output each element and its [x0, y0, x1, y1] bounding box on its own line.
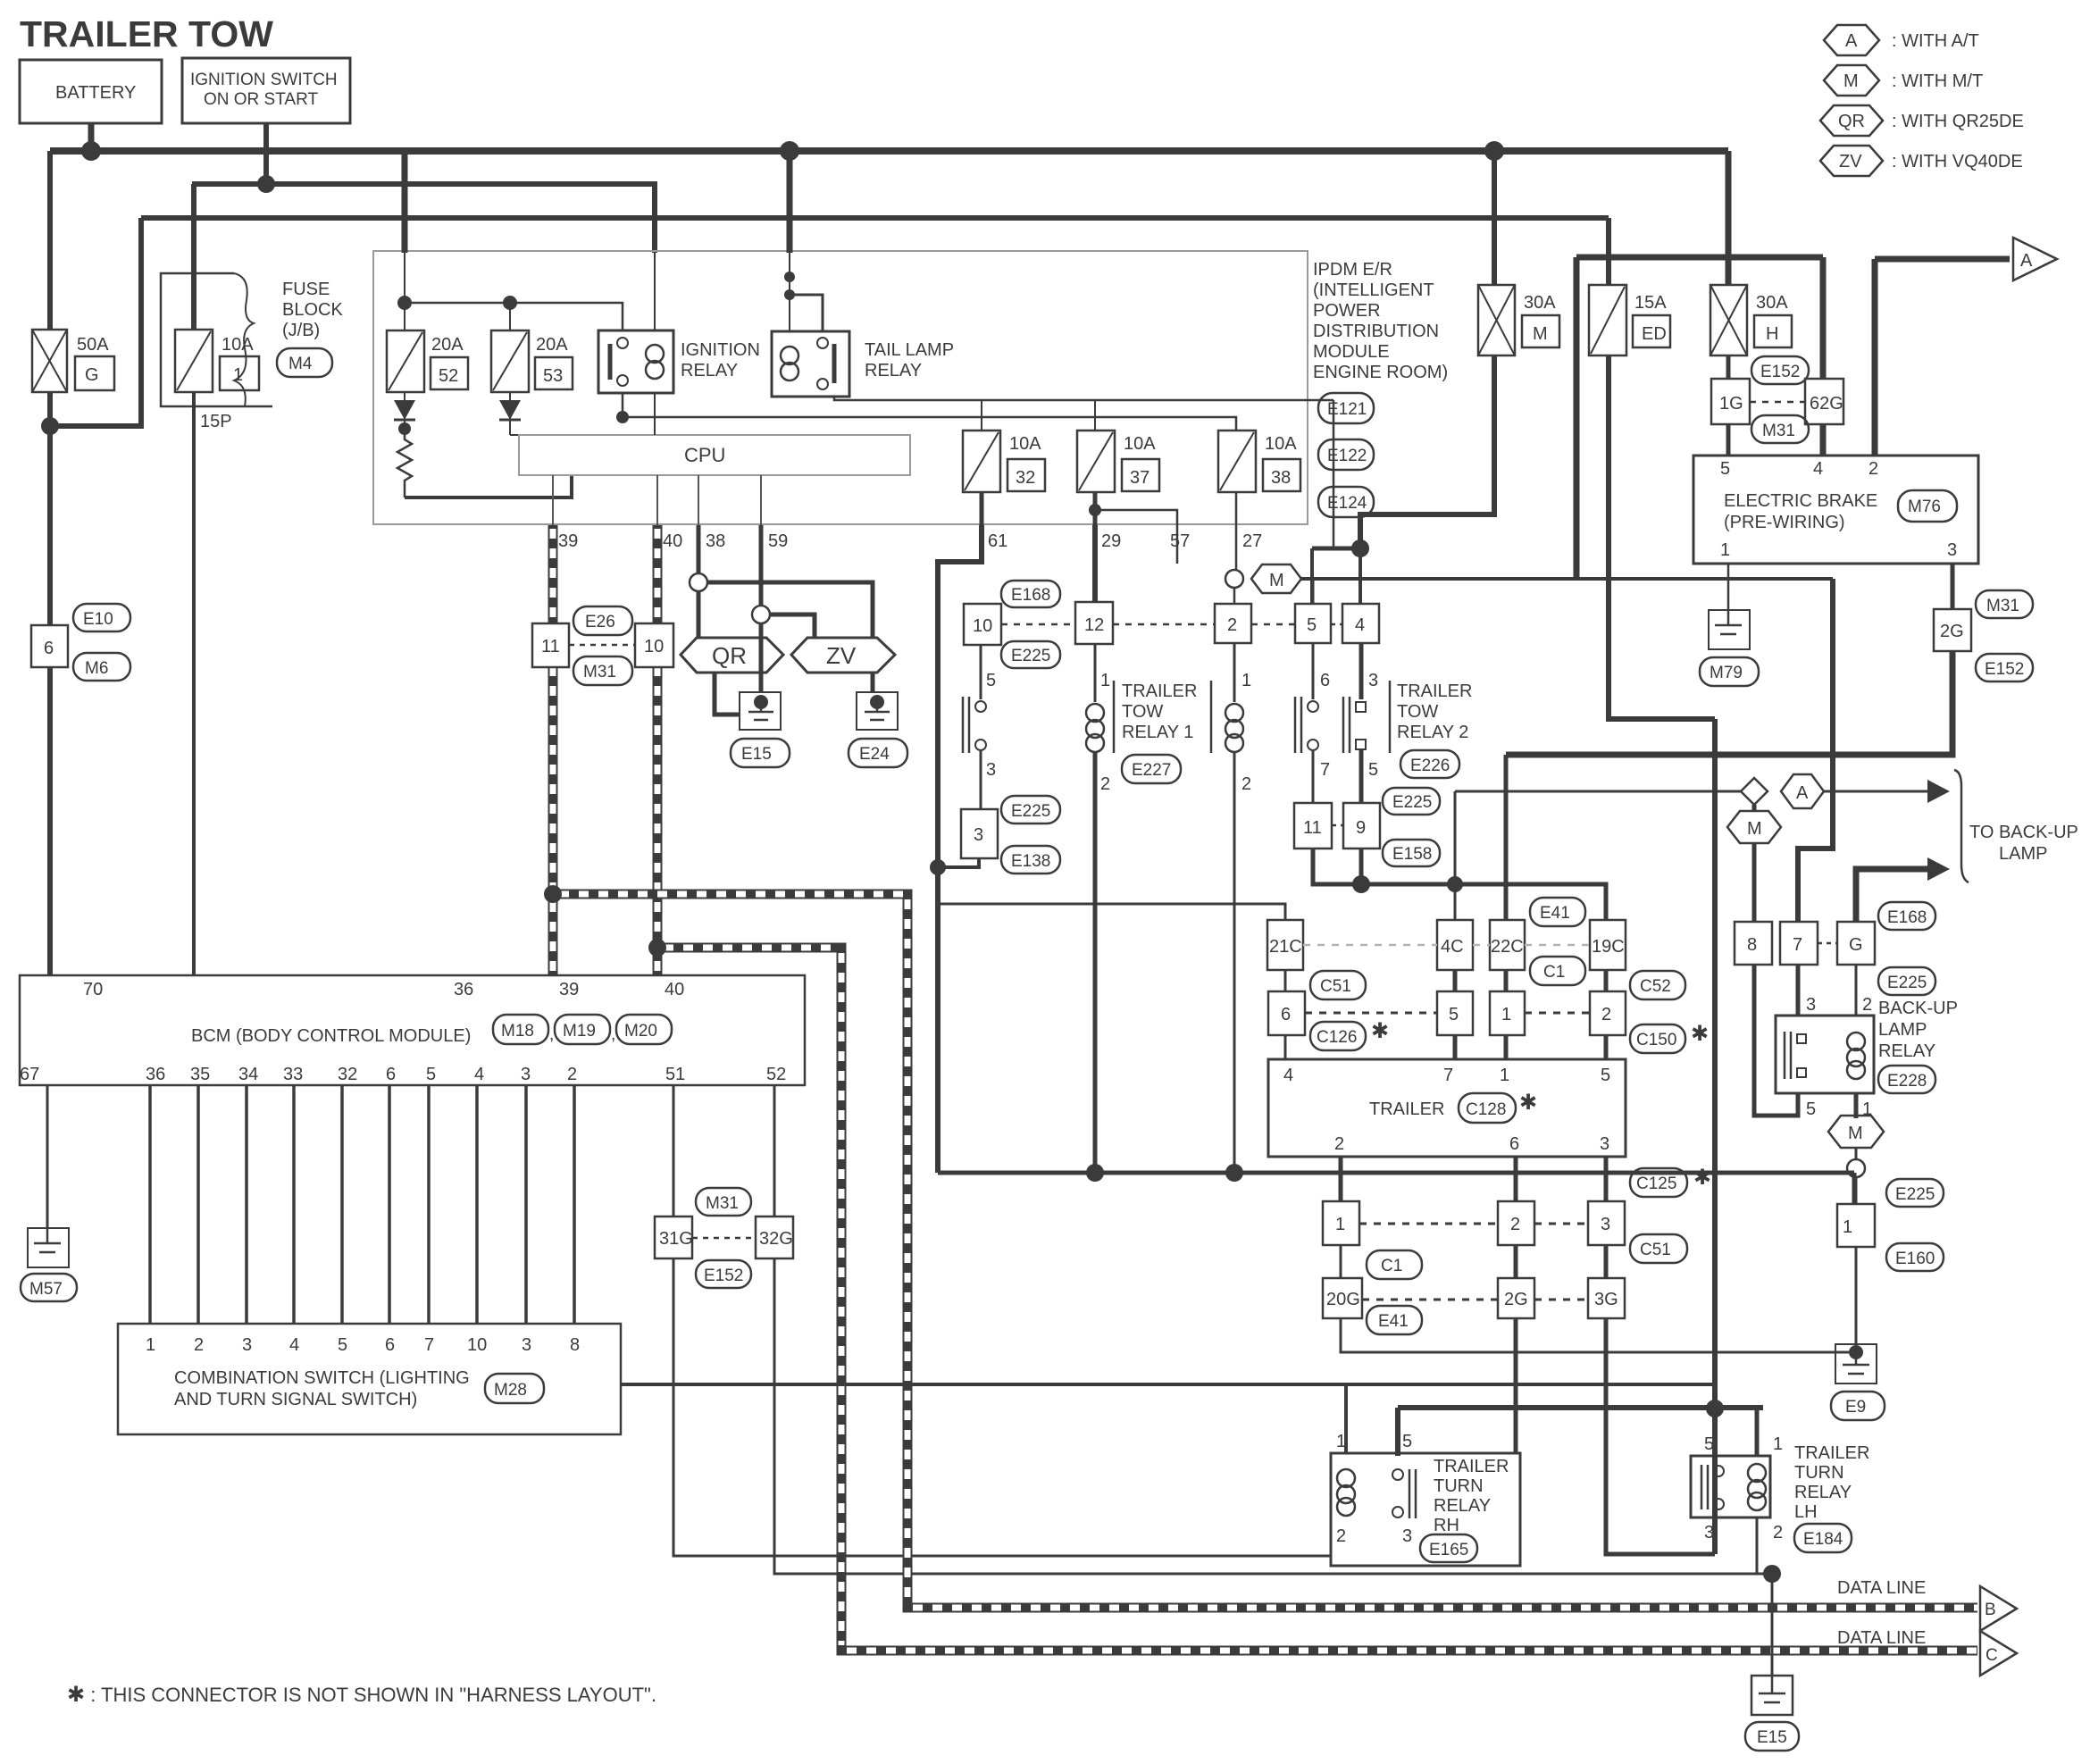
node 30AM output dot: [1351, 539, 1369, 557]
wire 1box to trailer pin1: [1504, 1035, 1509, 1059]
svg-text:(J/B): (J/B): [282, 321, 320, 340]
connector E124 oval: [1318, 487, 1374, 517]
connector E160 oval (1box): [1886, 1243, 1944, 1271]
svg-text:5: 5: [1368, 760, 1378, 780]
legend hexagon M : WITH M/T: [1824, 65, 1983, 96]
fuse 10A 1 (fuse block): [175, 330, 259, 392]
node junction 50A fuse output: [41, 417, 59, 435]
dashed link 12-2: [1113, 623, 1215, 626]
svg-text:ZV: ZV: [1839, 152, 1862, 171]
diode below fuse 52: [394, 392, 415, 429]
svg-text:6: 6: [1320, 671, 1330, 690]
wires BCM bottom pins to combination switch: [150, 1085, 574, 1324]
wire M hex to circle: [1855, 1148, 1858, 1159]
connector E225 oval (1box): [1886, 1179, 1944, 1207]
wire bus1 right drop to 30A H fuse: [1726, 151, 1732, 285]
svg-text:3: 3: [1601, 1215, 1610, 1234]
svg-text:3: 3: [521, 1065, 531, 1084]
wire brake pin1 to M79 ground: [1727, 564, 1730, 610]
wire 5box to left contact: [1312, 643, 1315, 699]
wire relay2 coil column top: [1233, 643, 1236, 702]
wire bus1 y169: [50, 147, 1728, 155]
node bus1 junction x1673: [1484, 141, 1504, 161]
svg-text:CPU: CPU: [684, 444, 725, 466]
svg-text:RELAY: RELAY: [865, 361, 922, 380]
BCM box: [20, 975, 805, 1085]
wire bus3 y244: [141, 215, 1609, 221]
diode below fuse 53: [499, 392, 521, 435]
wire diamond down through M hex to 8box: [1752, 805, 1757, 922]
connector 32G box: [756, 1216, 793, 1258]
IPDM E/R box: [373, 251, 1308, 524]
svg-text:E165: E165: [1429, 1541, 1468, 1559]
wire A branch top right: [1875, 256, 2010, 263]
svg-text:32G: 32G: [759, 1229, 793, 1249]
svg-text:(PRE-WIRING): (PRE-WIRING): [1724, 513, 1845, 532]
backup relay coil: [1847, 1032, 1865, 1050]
svg-text:M57: M57: [29, 1280, 63, 1299]
connector 10 box: [635, 623, 673, 667]
svg-text:BACK-UP: BACK-UP: [1878, 999, 1958, 1018]
svg-text:4: 4: [1283, 1066, 1293, 1085]
svg-text:2: 2: [1241, 774, 1251, 794]
node bus1-battery junction: [81, 141, 101, 161]
svg-text:RELAY: RELAY: [681, 361, 738, 380]
RH relay coil: [1337, 1469, 1355, 1487]
resistor below diode 52: [397, 429, 412, 497]
svg-text:✱: ✱: [1693, 1166, 1711, 1190]
wire 2G down elbow left: [1506, 651, 1952, 755]
node checkered junction 40: [648, 939, 666, 957]
wire 52 long to LH dot: [774, 1258, 1772, 1574]
svg-text:1: 1: [1773, 1434, 1783, 1454]
svg-text:E15: E15: [1757, 1728, 1787, 1747]
wire 6box to trailer pin4: [1284, 1035, 1287, 1059]
svg-text:E225: E225: [1392, 793, 1432, 812]
node tail relay coil branch: [784, 272, 795, 282]
wire 1box to E9 ground: [1855, 1247, 1858, 1344]
svg-text:7: 7: [1793, 935, 1802, 955]
svg-text:6: 6: [1281, 1005, 1291, 1024]
svg-text:A: A: [1796, 783, 1809, 803]
tail lamp relay contact: [832, 344, 837, 383]
label BACK-UP LAMP RELAY: [1878, 999, 1958, 1061]
svg-text:52: 52: [439, 366, 458, 386]
svg-text:6: 6: [385, 1335, 395, 1355]
wire A-line y886: [1455, 790, 1741, 793]
wire brake pin3 to 2G: [1951, 564, 1955, 609]
svg-text:2G: 2G: [1504, 1290, 1528, 1309]
svg-text:4C: 4C: [1441, 937, 1464, 957]
svg-text:E152: E152: [704, 1267, 743, 1285]
connector 1 box (E160): [1837, 1204, 1875, 1247]
wire 5box to trailer pin7: [1453, 1035, 1458, 1059]
node diode junction x453 y480: [398, 422, 411, 435]
svg-text:4: 4: [289, 1335, 299, 1355]
svg-text:36: 36: [146, 1065, 165, 1084]
checkered wire pin39 to BCM: [548, 525, 558, 975]
wire thick 62G drop from y288: [1820, 257, 1827, 379]
wire bus3 corner down to 15A: [1606, 218, 1611, 285]
wire 19C down to 2box: [1604, 970, 1609, 991]
triangle C: [1980, 1631, 2017, 1676]
svg-text:DATA LINE: DATA LINE: [1837, 1628, 1926, 1648]
wire bus1 drop to 20A fuses x453: [402, 151, 408, 253]
wire LH pin5 from x1920: [1714, 1409, 1716, 1465]
svg-text:7: 7: [1443, 1066, 1453, 1085]
wire 20A fuse feed line y339: [405, 303, 623, 331]
svg-text:E227: E227: [1132, 761, 1171, 780]
svg-text:TAIL LAMP: TAIL LAMP: [865, 340, 954, 360]
svg-text:1: 1: [1720, 540, 1730, 560]
option circle (backup): [1847, 1159, 1865, 1177]
svg-text:4: 4: [1355, 615, 1365, 635]
svg-text:10A: 10A: [1009, 434, 1041, 454]
svg-text:POWER: POWER: [1313, 301, 1381, 321]
svg-text:21C: 21C: [1269, 937, 1302, 957]
svg-text:7: 7: [1320, 760, 1330, 780]
connector E225 oval (relay2 out): [1383, 788, 1440, 815]
svg-text:E41: E41: [1378, 1312, 1409, 1331]
svg-text:39: 39: [558, 531, 578, 551]
connector E152 oval (2G): [1976, 654, 2033, 681]
svg-text:9: 9: [1356, 818, 1366, 838]
wire y1550 drop to RH pin1: [1344, 1384, 1348, 1453]
svg-text:1: 1: [233, 365, 243, 385]
connector 10 box (relay1): [964, 604, 1001, 645]
svg-text:TRAILER: TRAILER: [1369, 1099, 1444, 1119]
arrow backup lamp 1: [1927, 780, 1950, 803]
svg-text:5: 5: [426, 1065, 436, 1084]
dashed link 2G-3G: [1534, 1299, 1588, 1301]
svg-text:DATA LINE: DATA LINE: [1837, 1578, 1926, 1598]
svg-text:6: 6: [386, 1065, 396, 1084]
label TRAILER TOW RELAY 1: [1122, 681, 1197, 742]
svg-text:3: 3: [242, 1335, 252, 1355]
connector E41 oval (20G): [1367, 1306, 1422, 1334]
wire CPU to IPDM pin stubs: [553, 475, 761, 525]
svg-text:5: 5: [1601, 1066, 1610, 1085]
triangle B: [1980, 1586, 2017, 1631]
svg-text:E24: E24: [859, 745, 890, 764]
node checkered junction 39: [544, 885, 562, 903]
svg-text:B: B: [1985, 1601, 1996, 1619]
svg-text:8: 8: [1747, 935, 1757, 955]
dashed link 7-G: [1818, 942, 1837, 945]
fusible link 50A G: [32, 330, 114, 392]
connector M4 oval: [277, 348, 332, 377]
dashed link 21C-4C-22C-19C: [1303, 944, 1590, 947]
relay2 bracket bar: [1389, 681, 1392, 753]
svg-text:G: G: [1849, 935, 1863, 955]
wire 10box down to relay1 contact: [980, 645, 982, 699]
connector 12 box: [1075, 602, 1113, 644]
svg-text:52: 52: [766, 1065, 786, 1084]
hexagon A (backup branch): [1781, 774, 1824, 808]
connector 3 box (row under trailer): [1588, 1201, 1625, 1245]
svg-text:70: 70: [83, 980, 103, 999]
connector 4 box: [1342, 604, 1379, 643]
svg-text:2G: 2G: [1940, 622, 1964, 641]
node 20A fuse feed junction x453: [397, 296, 412, 310]
wire 15P column to BCM: [192, 392, 196, 975]
dashed link 10-12: [1001, 623, 1075, 626]
node bus1 junction x884: [780, 141, 799, 161]
svg-text:3: 3: [1600, 1134, 1609, 1154]
ground E15 (QR): [731, 692, 790, 767]
relay2 left contact: [1295, 697, 1318, 753]
svg-text:E138: E138: [1011, 852, 1050, 871]
node ignition relay output: [616, 411, 629, 423]
wire thick x1765 drop: [1574, 257, 1580, 579]
svg-text:E225: E225: [1011, 802, 1050, 821]
svg-text:BCM (BODY CONTROL MODULE): BCM (BODY CONTROL MODULE): [191, 1026, 471, 1046]
node L1 relay2 junction: [1225, 1164, 1243, 1182]
svg-text:2: 2: [567, 1065, 577, 1084]
svg-text:: WITH VQ40DE: : WITH VQ40DE: [1892, 152, 2023, 171]
dashed link 31G-32G: [692, 1237, 756, 1240]
svg-text:M6: M6: [85, 659, 108, 678]
svg-text:1: 1: [1335, 1215, 1345, 1234]
svg-text:✱ : THIS CONNECTOR IS NOT SHO: ✱ : THIS CONNECTOR IS NOT SHOWN IN "HARN…: [67, 1683, 656, 1707]
wire ignition relay output y467: [623, 393, 1236, 431]
connector 1 box (row under trailer): [1323, 1201, 1359, 1245]
svg-text:4: 4: [1813, 459, 1823, 479]
svg-text:6: 6: [44, 639, 54, 658]
svg-text:62G: 62G: [1810, 394, 1843, 414]
dashed link 5-4: [1331, 623, 1342, 626]
wire pin27 to circle: [1235, 525, 1238, 570]
node bus2-ignition junction: [257, 175, 275, 193]
svg-text:1: 1: [1336, 1432, 1346, 1451]
trailer box: [1268, 1059, 1626, 1157]
wire IPDM pin38 drop: [697, 525, 701, 574]
fuse 10A 37: [1077, 431, 1159, 492]
hexagon M (pin27): [1251, 564, 1301, 593]
legend hexagon ZV : WITH VQ40DE: [1820, 146, 2023, 176]
svg-text:5: 5: [1720, 459, 1730, 479]
svg-text:TOW: TOW: [1122, 702, 1163, 722]
svg-text:4: 4: [474, 1065, 484, 1084]
tail lamp relay coil: [781, 347, 798, 364]
wire 5box drop: [1310, 548, 1314, 604]
svg-text:15A: 15A: [1634, 293, 1667, 313]
svg-text:10A: 10A: [222, 335, 254, 355]
node L1 relay1 junction: [1086, 1164, 1104, 1182]
svg-text:ELECTRIC BRAKE: ELECTRIC BRAKE: [1724, 491, 1877, 511]
fuse 10A 38: [1218, 431, 1300, 492]
dashed link 1-2: [1525, 1012, 1590, 1015]
svg-text:TRAILER: TRAILER: [1397, 681, 1472, 701]
svg-text:3: 3: [1402, 1526, 1412, 1546]
connector E138 oval (3box): [1001, 846, 1060, 874]
wire trailer pin3 down: [1604, 1157, 1609, 1201]
svg-text:32: 32: [338, 1065, 357, 1084]
svg-text:10: 10: [973, 616, 992, 636]
wire RH pin2 down to y1762: [1345, 1518, 1347, 1574]
svg-text:61: 61: [988, 531, 1007, 551]
wire x2052 down to 7box: [1798, 579, 1833, 922]
svg-text:E226: E226: [1410, 757, 1450, 775]
svg-text:35: 35: [190, 1065, 210, 1084]
option circle pin38: [690, 573, 707, 591]
svg-text:E26: E26: [585, 613, 615, 631]
wire 2box to trailer pin5: [1604, 1035, 1609, 1059]
wire QR bottom to E15 ground: [715, 673, 753, 715]
label TRAILER TURN RELAY LH: [1794, 1443, 1869, 1522]
svg-text:: WITH M/T: : WITH M/T: [1892, 71, 1983, 91]
wire relay1 coil column: [1094, 644, 1097, 702]
svg-text:A: A: [1845, 31, 1858, 51]
svg-text:3: 3: [1947, 540, 1957, 560]
wire 30A M down: [1360, 355, 1494, 548]
connector C51 oval (row): [1630, 1234, 1687, 1263]
fuse 10A 32: [963, 431, 1045, 492]
svg-text:C128: C128: [1466, 1100, 1506, 1119]
electric brake box: [1693, 456, 1978, 564]
svg-text:20G: 20G: [1326, 1290, 1360, 1309]
wire 20G to E9 line y1514: [1341, 1318, 1849, 1352]
svg-text:LH: LH: [1794, 1502, 1818, 1522]
wire y448 right drop to dotA: [1333, 400, 1335, 548]
svg-text:10A: 10A: [1124, 434, 1156, 454]
svg-text:✱: ✱: [1519, 1091, 1537, 1115]
wire left battery vertical x56: [47, 151, 53, 625]
ignition relay coil: [646, 345, 664, 363]
wire fuse32 to pin61: [980, 492, 984, 525]
svg-text:2: 2: [1334, 1134, 1344, 1154]
connector 2G box (row): [1498, 1278, 1534, 1318]
wire fuse53 stub: [509, 303, 511, 330]
triangle A top right: [2013, 238, 2057, 280]
ground E9: [1831, 1344, 1885, 1420]
svg-text:3: 3: [1806, 995, 1816, 1015]
svg-text:RELAY: RELAY: [1434, 1496, 1491, 1516]
dashed link 20G-2G: [1362, 1299, 1498, 1301]
svg-text:M: M: [1533, 324, 1548, 344]
wire backup relay pin1 to M hex bottom: [1854, 1093, 1859, 1118]
svg-text:3: 3: [1704, 1523, 1714, 1542]
connector 11 box: [532, 623, 569, 667]
node relay2 output dot: [1352, 875, 1370, 893]
wire 50A fuse bottom: [47, 392, 53, 426]
svg-text:LAMP: LAMP: [1878, 1020, 1927, 1040]
svg-text:E10: E10: [83, 610, 113, 629]
wire 51 to trailer turn relay RH: [673, 1258, 1331, 1556]
dashed link 1-2 row: [1359, 1223, 1498, 1225]
wire IPDM pin59 drop: [759, 525, 764, 606]
svg-text:C51: C51: [1640, 1241, 1671, 1259]
connector C125 oval + star: [1630, 1166, 1711, 1197]
connector E152 oval (1G): [1751, 356, 1809, 384]
svg-text:40: 40: [665, 980, 684, 999]
connector E225 oval (G): [1878, 967, 1935, 995]
svg-text:TURN: TURN: [1794, 1463, 1844, 1483]
wire 8box down elbow to relay pin5: [1754, 965, 1798, 1116]
connector E121 oval: [1318, 393, 1374, 423]
svg-text:COMBINATION SWITCH (LIGHTING: COMBINATION SWITCH (LIGHTING: [174, 1368, 470, 1388]
svg-text:IGNITION SWITCH: IGNITION SWITCH: [190, 71, 338, 89]
wire LH pin1 up to y1576: [1755, 1408, 1760, 1456]
svg-text:2: 2: [1100, 774, 1110, 794]
wire 30A H to 1G: [1726, 355, 1731, 379]
checkered wire pin40 to BCM: [653, 525, 663, 975]
wire pin57 down join: [1176, 525, 1179, 564]
svg-text:E152: E152: [1760, 363, 1800, 381]
wire fuse37 junction to pin57: [1093, 492, 1098, 525]
connector 7 box: [1780, 922, 1818, 965]
connector C51 oval: [1310, 971, 1366, 999]
svg-text:10: 10: [644, 637, 664, 656]
svg-text:5: 5: [1704, 1434, 1714, 1454]
connector M31 oval (2G): [1976, 590, 2033, 618]
node 3box junction on pin61 column: [930, 859, 946, 875]
wire ignition relay coil bottom to CPU: [654, 393, 656, 435]
connector 1G box: [1711, 379, 1750, 424]
connector 2 box (row under trailer): [1498, 1201, 1534, 1245]
svg-text:BLOCK: BLOCK: [282, 300, 343, 320]
dashed link 2-3 row: [1534, 1223, 1588, 1225]
svg-text:5: 5: [1806, 1099, 1816, 1119]
battery box: [20, 60, 162, 123]
wire y1576: [1398, 1405, 1763, 1410]
svg-text:36: 36: [454, 980, 473, 999]
svg-text:M31: M31: [1762, 422, 1795, 440]
svg-text:M: M: [1269, 571, 1284, 590]
wire fuse52 stub: [404, 303, 405, 330]
svg-text:40: 40: [663, 531, 682, 551]
connector E152 oval (31G): [696, 1260, 751, 1288]
svg-text:2: 2: [1773, 1523, 1783, 1542]
dashed link 11-9: [1332, 824, 1343, 827]
svg-text:TOW: TOW: [1397, 702, 1438, 722]
svg-text:38: 38: [706, 531, 725, 551]
svg-text:2: 2: [1510, 1215, 1520, 1234]
wire bus3 left drop x158: [48, 218, 141, 426]
wire bus2 y206: [192, 184, 655, 253]
svg-text:C51: C51: [1320, 977, 1351, 996]
svg-text:: WITH A/T: : WITH A/T: [1892, 31, 1979, 51]
relay2 coil: [1225, 704, 1243, 752]
wire RH pin3 stub: [1411, 1518, 1413, 1532]
wire 62G to brake pin4: [1820, 424, 1827, 456]
svg-text:E152: E152: [1985, 660, 2024, 679]
svg-text:2: 2: [194, 1335, 204, 1355]
svg-text:1: 1: [1501, 1005, 1511, 1024]
wire 2G row down: [1514, 1318, 1518, 1453]
relay1 coil: [1086, 704, 1104, 752]
svg-text:27: 27: [1242, 531, 1262, 551]
tail lamp relay box: [772, 331, 954, 397]
svg-text:1G: 1G: [1719, 394, 1743, 414]
connector E225 oval (relay1 top): [1001, 641, 1060, 668]
ignition relay contact: [608, 344, 613, 380]
connector 20G box: [1323, 1278, 1362, 1318]
svg-text:5: 5: [1402, 1432, 1412, 1451]
wire pin61 route down-left: [938, 525, 982, 1173]
hexagon M (backup branch): [1727, 811, 1781, 843]
svg-text:3: 3: [522, 1335, 531, 1355]
wire Gbox to backup relay pin2: [1855, 965, 1858, 1016]
ignition switch box: [182, 58, 350, 123]
wire fuse1 feed from bus2: [191, 184, 196, 330]
wire y1550: [621, 1383, 1715, 1386]
svg-text:TRAILER: TRAILER: [1434, 1457, 1509, 1476]
connector M31 oval (1G): [1751, 415, 1809, 443]
connector E226 oval: [1400, 750, 1459, 778]
svg-text:32: 32: [1016, 468, 1035, 488]
bracket TO BACK-UP LAMP: [1954, 770, 1969, 882]
